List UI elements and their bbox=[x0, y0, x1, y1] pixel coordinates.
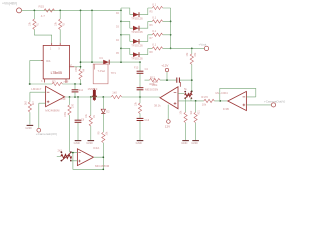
svg-text:0.1: 0.1 bbox=[152, 2, 156, 6]
svg-text:GND: GND bbox=[191, 141, 197, 145]
resistor R3 700 bbox=[52, 79, 68, 85]
ladder cell 4 bbox=[121, 43, 171, 61]
resistor R8 vertical x103.3 bbox=[99, 113, 109, 157]
terminal pad CameraOut bbox=[264, 99, 285, 107]
svg-text:TFSDC05: TFSDC05 bbox=[131, 17, 143, 21]
svg-text:+CameraIn(0V): +CameraIn(0V) bbox=[36, 132, 57, 136]
resistor R4 vertical x80.5 bbox=[76, 66, 86, 84]
svg-text:GND: GND bbox=[25, 126, 31, 130]
svg-text:X: X bbox=[58, 47, 60, 51]
svg-text:0.1: 0.1 bbox=[152, 16, 156, 20]
wire horizontal y84 bbox=[29, 83, 81, 85]
wire R2 to IC1 pin2 bbox=[59, 30, 61, 43]
svg-text:GND: GND bbox=[86, 141, 92, 145]
svg-text:700: 700 bbox=[63, 80, 68, 84]
svg-text:C10: C10 bbox=[61, 97, 66, 101]
terminal pad CameraIn bbox=[36, 128, 57, 136]
wire main top bus bbox=[21, 9, 121, 11]
ground x140 bbox=[136, 141, 144, 145]
box T-Pad bbox=[93, 64, 116, 84]
op-amp IC3A center (points left) bbox=[145, 80, 180, 109]
IC1 regulator box bbox=[41, 43, 74, 83]
diode 1N5819 vertical bbox=[88, 87, 98, 101]
svg-text:+Vout: +Vout bbox=[199, 42, 207, 46]
svg-text:MLLC004: MLLC004 bbox=[216, 91, 229, 95]
junction dots top bus bbox=[34, 10, 122, 12]
svg-text:10k: 10k bbox=[202, 103, 207, 107]
svg-text:100k: 100k bbox=[152, 83, 158, 87]
wire IC2 minus input bbox=[30, 92, 46, 102]
op-amp IC3B right (points left) bbox=[216, 91, 247, 111]
diode D1 on y62 bbox=[100, 56, 110, 64]
svg-text:4.7: 4.7 bbox=[41, 14, 46, 18]
svg-text:1k0: 1k0 bbox=[112, 90, 117, 94]
svg-text:TFSDC05: TFSDC05 bbox=[131, 30, 143, 34]
resistor R5 vertical x29.9 bbox=[25, 101, 35, 125]
svg-text:IC1: IC1 bbox=[46, 59, 51, 63]
svg-text:+12V: +12V bbox=[161, 63, 168, 67]
svg-text:2k2: 2k2 bbox=[58, 148, 63, 152]
svg-text:38.1k: 38.1k bbox=[154, 104, 161, 108]
IC2 op-amp bbox=[31, 86, 64, 112]
wire horizontal y62 bbox=[81, 61, 141, 63]
wire IC1 left pin down bbox=[30, 60, 41, 84]
ground IC2 bbox=[25, 125, 33, 130]
svg-text:T-Pad: T-Pad bbox=[98, 69, 106, 73]
feedback wire IC3A bbox=[73, 153, 103, 170]
resistor R9 on y97 bbox=[111, 90, 122, 98]
resistor R1 vertical bbox=[30, 10, 40, 29]
svg-text:MIC4680M: MIC4680M bbox=[95, 164, 110, 168]
svg-text:1N5819: 1N5819 bbox=[88, 87, 98, 91]
node chain x103.3: diode D2 bbox=[101, 97, 110, 114]
svg-text:R12: R12 bbox=[150, 75, 155, 79]
supply 12V pad under IC3A bbox=[165, 105, 170, 129]
wire R1 to IC1 pin1 bbox=[34, 30, 51, 43]
wire to CameraOut pad bbox=[246, 104, 271, 106]
svg-text:12V: 12V bbox=[165, 124, 170, 128]
svg-text:F13: F13 bbox=[134, 66, 139, 69]
ladder left bus bbox=[120, 8, 122, 62]
capacitor C3 x75 bbox=[72, 84, 84, 97]
resistor R15 bbox=[39, 5, 55, 18]
svg-text:GND: GND bbox=[181, 141, 187, 145]
resistor R2 vertical bbox=[55, 10, 65, 29]
feedback wire IC3B bbox=[220, 88, 256, 101]
svg-text:0.1: 0.1 bbox=[152, 43, 156, 47]
svg-text:IC3A: IC3A bbox=[93, 146, 99, 150]
terminal pad +Vout bbox=[199, 42, 209, 50]
resistor R18 vertical x185 bbox=[180, 101, 187, 140]
trimmer R20 bbox=[184, 87, 192, 101]
trimmer R22 bbox=[57, 148, 72, 161]
svg-text:D1: D1 bbox=[100, 56, 104, 60]
wire trim to IC3A inputs bbox=[71, 153, 77, 161]
ladder right bus bbox=[170, 8, 172, 48]
svg-text:0.1: 0.1 bbox=[152, 29, 156, 33]
svg-text:2n2: 2n2 bbox=[79, 89, 84, 92]
ground R7 bbox=[86, 141, 94, 145]
svg-text:+CameraOut(V): +CameraOut(V) bbox=[264, 99, 285, 103]
svg-text:C13: C13 bbox=[145, 119, 150, 122]
svg-text:GND: GND bbox=[136, 141, 142, 145]
svg-text:R3: R3 bbox=[52, 79, 56, 83]
svg-text:+Vin(48V): +Vin(48V) bbox=[2, 2, 17, 6]
wire +Vout bbox=[171, 47, 205, 49]
wire R17 row bbox=[178, 100, 228, 102]
ground x195.5 bbox=[191, 141, 199, 145]
svg-text:TFSDC05: TFSDC05 bbox=[131, 44, 143, 48]
svg-text:100k: 100k bbox=[76, 66, 78, 72]
wire IC3A minus input to trimmer bbox=[178, 93, 185, 95]
resistor R7 vertical x90.8 bbox=[86, 97, 96, 140]
ground C8 bbox=[74, 141, 82, 145]
resistor R12 and capacitor C6 row y80 bbox=[145, 75, 192, 86]
resistor R21 vertical x195.5 bbox=[191, 101, 201, 140]
svg-text:L78n05: L78n05 bbox=[51, 71, 62, 75]
svg-text:MIC4680M: MIC4680M bbox=[45, 109, 60, 113]
wire IC2 plus input to pad bbox=[39, 103, 46, 128]
wire vertical x92 bbox=[91, 10, 93, 62]
svg-text:R15: R15 bbox=[39, 5, 45, 9]
svg-text:TP1: TP1 bbox=[111, 71, 117, 75]
svg-text:100n: 100n bbox=[65, 111, 67, 117]
ladder cell 1 bbox=[121, 2, 171, 20]
svg-text:R170: R170 bbox=[201, 95, 208, 99]
capacitor C8 x78 bbox=[75, 97, 85, 140]
capacitor chain x140: C4 C5 bbox=[134, 62, 148, 97]
op-amp IC3A bottom-left bbox=[77, 146, 109, 168]
svg-text:MES033N: MES033N bbox=[145, 87, 158, 91]
svg-text:LM1117: LM1117 bbox=[31, 87, 41, 91]
svg-text:R21: R21 bbox=[199, 110, 201, 115]
resistor R13 + C13 below wire97 at x140 bbox=[135, 97, 149, 140]
ladder cell 2 bbox=[121, 16, 171, 34]
wire vertical x80.5 top bbox=[80, 10, 82, 69]
ladder diode designators bbox=[116, 13, 120, 55]
svg-text:TFSDC05: TFSDC05 bbox=[131, 57, 143, 61]
wire center y97 bbox=[65, 96, 160, 98]
wire IC1 out pin to vertical x80.5 bbox=[74, 66, 80, 68]
svg-text:GND: GND bbox=[74, 141, 80, 145]
terminal pad +Vin bbox=[17, 8, 22, 13]
supply +12V pad bbox=[161, 63, 168, 80]
resistor R6 vertical x69.5 bbox=[65, 97, 75, 152]
resistor R17 bbox=[201, 95, 214, 107]
ground x185 bbox=[181, 141, 189, 145]
ladder cell 3 bbox=[121, 29, 171, 47]
resistor R19 vertical x191 bbox=[187, 48, 197, 92]
svg-text:IC3B: IC3B bbox=[223, 107, 229, 111]
